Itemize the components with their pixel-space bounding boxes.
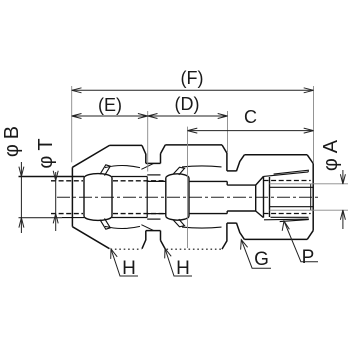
nut H1 barrel (front face) [84, 174, 112, 221]
leader G [241, 240, 271, 269]
port thread lines [270, 187, 314, 217]
dim phiT [53, 171, 58, 231]
port inner face [310, 184, 312, 210]
svg-text:H: H [122, 258, 136, 279]
svg-text:φB: φB [1, 121, 23, 157]
svg-text:(F): (F) [181, 68, 204, 88]
dim phiB [19, 162, 24, 233]
nut H1 top face arc [105, 166, 140, 229]
leader P [282, 221, 318, 262]
svg-text:φT: φT [35, 133, 57, 168]
svg-text:φA: φA [320, 135, 342, 171]
leader H2 [165, 249, 192, 277]
dim (F) [72, 88, 314, 93]
nut H2 bore lines [147, 175, 166, 219]
svg-text:P: P [302, 247, 315, 268]
nut H1 outline [72, 145, 145, 248]
leader H1 [111, 249, 138, 276]
nut H2 outline [161, 145, 227, 249]
extension lines [19, 86, 349, 248]
neck2 [227, 171, 237, 223]
tube to body [189, 176, 270, 217]
nut H2 chamfer V bits [174, 167, 185, 227]
svg-text:(D): (D) [175, 94, 200, 114]
nut H1 chamfer V bits [100, 165, 110, 229]
dim (D) [148, 114, 228, 119]
tube stub [19, 177, 85, 218]
nut H2 barrel [166, 174, 189, 220]
svg-text:H: H [176, 258, 190, 279]
svg-text:G: G [254, 249, 269, 270]
dim C [188, 128, 314, 133]
svg-text:C: C [244, 107, 257, 127]
nut H2 bottom flat dotted [167, 248, 222, 250]
dim (E) [72, 114, 148, 119]
svg-text:(E): (E) [98, 95, 122, 115]
nut H1 bottom flat dotted [111, 248, 142, 250]
neck arc bits [141, 164, 153, 231]
body hex edge bands [264, 170, 310, 221]
tube hidden lines [51, 181, 165, 214]
nut H2 top face arc [182, 166, 222, 228]
body hex G outline [236, 155, 313, 240]
nut H1 bore lines [112, 177, 147, 218]
dim phiA [340, 170, 345, 229]
neck between nuts [146, 163, 161, 230]
centerline [57, 196, 320, 198]
